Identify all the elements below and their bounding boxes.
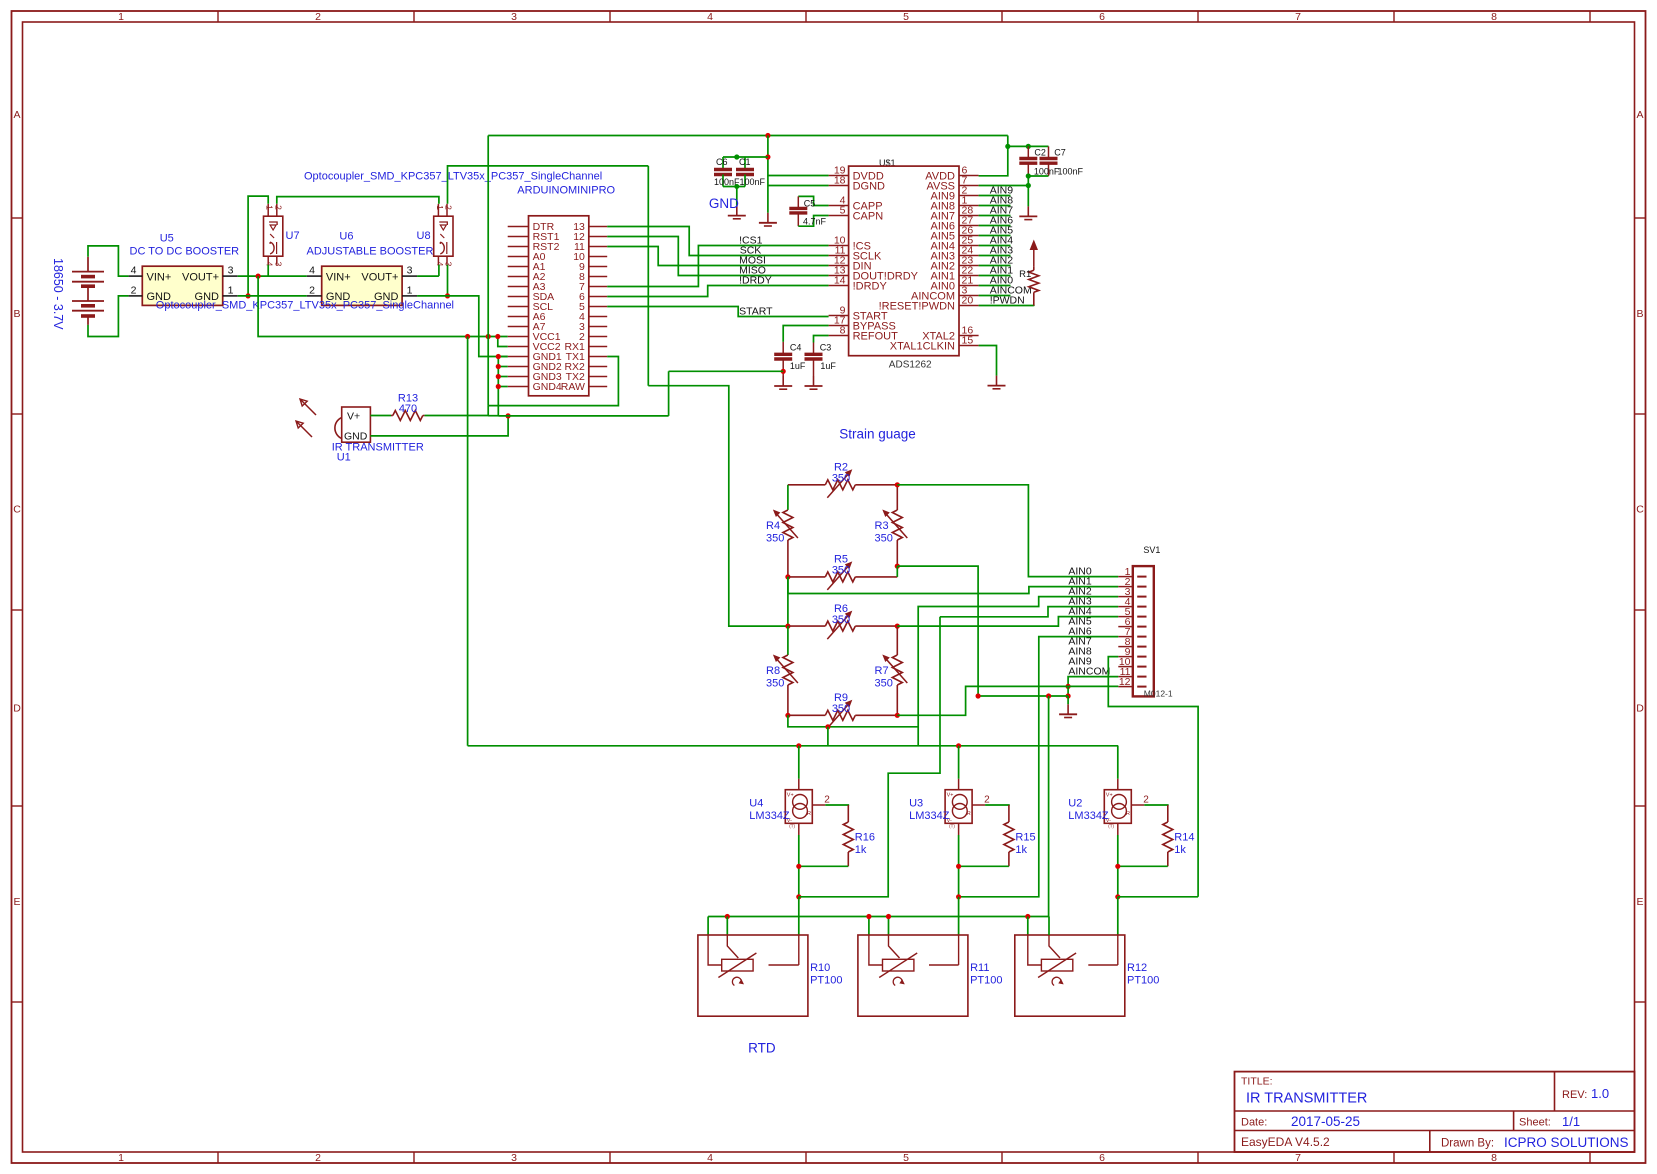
battery G1 18650 3.7V xyxy=(72,271,104,273)
ADS1262 pin 13 DOUT!DRDY xyxy=(829,275,849,277)
capacitor C7 100nF xyxy=(1048,146,1050,158)
wire bus continuity xyxy=(488,415,498,417)
R12 internal wires xyxy=(1028,935,1042,965)
svg-text:VOUT+: VOUT+ xyxy=(361,272,398,284)
svg-text:D: D xyxy=(13,703,21,715)
svg-text:EasyEDA V4.5.2: EasyEDA V4.5.2 xyxy=(1241,1135,1330,1149)
svg-text:8: 8 xyxy=(840,325,846,337)
svg-text:2: 2 xyxy=(824,794,830,805)
U5 pin 3 stub xyxy=(223,275,238,277)
svg-text:U8: U8 xyxy=(417,230,431,242)
wire cap top rail C2 C7 xyxy=(1008,145,1049,147)
svg-text:Optocoupler_SMD_KPC357_LTV35x_: Optocoupler_SMD_KPC357_LTV35x_PC357_Sing… xyxy=(156,300,454,312)
wire C2 C7 bottom rail xyxy=(1028,175,1048,177)
wire U8 pin2 riser to cross rail xyxy=(448,166,649,204)
junction RTD trunk xyxy=(1025,914,1030,919)
wire U2 bottom to AIN8 drop xyxy=(1118,896,1198,898)
SV1 pin 11 stub xyxy=(1118,676,1133,678)
wire R3 bottom to R5 right xyxy=(896,566,898,577)
wire DGND branch xyxy=(768,185,829,187)
junction AINCOM node xyxy=(1066,684,1071,689)
wire gnd bus down to RTD trunk xyxy=(1048,696,1050,917)
svg-text:U3: U3 xyxy=(909,798,923,810)
svg-text:C3: C3 xyxy=(820,342,832,352)
optocoupler U7 xyxy=(264,216,283,256)
ARDUINO pin DTR stub xyxy=(508,226,529,228)
junction VOUT net xyxy=(256,274,261,279)
wire net stub AIN4 xyxy=(979,245,1011,247)
R12 PT100 resistor element xyxy=(1041,959,1072,971)
R10 internal wires xyxy=(708,935,722,965)
ARDUINO pin TX2 stub xyxy=(589,376,607,378)
svg-text:B: B xyxy=(13,308,20,320)
wire U4 bottom to AIN3 staircase xyxy=(799,617,940,897)
U1 emission arrow 1 xyxy=(300,399,316,415)
bottom ruler ticks xyxy=(217,1152,219,1163)
resistor R9 350 strain gauge xyxy=(788,714,825,716)
svg-text:4.7nF: 4.7nF xyxy=(803,216,827,226)
wire trunk to U2 V+ xyxy=(1117,746,1119,779)
wire gnd bus to C4 node xyxy=(669,370,784,372)
svg-text:B: B xyxy=(1636,308,1643,320)
wire GND bus riser to C4 node xyxy=(668,371,670,416)
wire U1 V+ pin xyxy=(370,415,391,417)
svg-text:350: 350 xyxy=(766,678,784,690)
wire DVDD riser and branch xyxy=(768,136,829,176)
ADS1262 pin 10 !CS xyxy=(829,245,849,247)
svg-text:U1: U1 xyxy=(337,452,351,464)
U1 IR transmitter box xyxy=(342,407,371,442)
U1 LED lens arc xyxy=(335,418,342,439)
SV1 pin 6 stub xyxy=(1118,626,1133,628)
U2 LM334Z current source xyxy=(1104,790,1131,824)
wire pin12 row xyxy=(1068,685,1118,687)
ARDUINO pin 10 stub xyxy=(589,256,607,258)
U6 pin 1 stub xyxy=(402,295,417,297)
svg-text:PT100: PT100 xyxy=(970,975,1002,987)
wire U7 pin1 up-over-down to GND net xyxy=(248,196,268,296)
wire trunk left end into R10 xyxy=(707,917,709,936)
svg-text:2: 2 xyxy=(309,284,315,296)
svg-text:2: 2 xyxy=(315,11,321,23)
ARDUINO pin A6 stub xyxy=(508,316,529,318)
svg-text:5: 5 xyxy=(903,11,909,23)
ARDUINO pin A3 stub xyxy=(508,286,529,288)
junction C4 gnd node xyxy=(781,369,786,374)
wire AINCOM bus to R9 right xyxy=(897,686,1068,715)
capacitor C4 1uF xyxy=(782,342,784,354)
ARDUINO pin TX1 stub xyxy=(589,356,607,358)
R12 thermal hook symbol xyxy=(1052,977,1061,985)
junction R6 right xyxy=(895,624,900,629)
svg-text:C6: C6 xyxy=(716,157,728,167)
U5 DC TO DC BOOSTER box xyxy=(142,266,222,305)
ARDUINO pin GND1 stub xyxy=(508,356,529,358)
svg-text:R12: R12 xyxy=(1127,962,1147,974)
wire R10 sense pair from trunk xyxy=(726,917,728,936)
wire VOUT net down to VCC line xyxy=(258,276,508,336)
junction U7 GND riser xyxy=(246,293,251,298)
ADS1262 pin 3 AINCOM xyxy=(959,295,979,297)
wire U15 V- down xyxy=(958,835,960,897)
wire gnd bus horizontal xyxy=(978,695,1068,697)
svg-text:3: 3 xyxy=(444,262,454,267)
wire U6 VOUT+ to U8 pin4 xyxy=(417,275,439,277)
svg-text:Strain guage: Strain guage xyxy=(839,427,916,442)
wire net stub AIN5 xyxy=(979,235,1011,237)
wire AIN8 pin9 to U2 bottom xyxy=(1108,657,1198,897)
svg-text:350: 350 xyxy=(875,678,893,690)
title block divider drawnby xyxy=(1429,1131,1431,1153)
svg-text:1: 1 xyxy=(407,284,413,296)
svg-text:C: C xyxy=(1636,504,1644,516)
svg-text:R16: R16 xyxy=(855,832,875,844)
svg-text:18: 18 xyxy=(834,175,846,187)
wire GND1-GND4 chain xyxy=(497,357,499,417)
junction R9 right xyxy=(895,713,900,718)
SV1 pin 9 stub xyxy=(1118,656,1133,658)
svg-text:1k: 1k xyxy=(1174,844,1186,856)
junction bridge1 mid-right xyxy=(895,564,900,569)
svg-text:R11: R11 xyxy=(970,962,989,974)
R1 arrow xyxy=(1033,243,1035,266)
junction R2 right xyxy=(895,482,900,487)
ADS1262 pin 7 AVSS xyxy=(959,185,979,187)
U6 pin 3 stub xyxy=(402,275,417,277)
ARDUINO pin RAW stub xyxy=(589,386,607,388)
svg-text:R8: R8 xyxy=(766,665,780,677)
svg-text:U4: U4 xyxy=(749,798,763,810)
wire CAPP to C5 xyxy=(798,196,828,205)
svg-text:1k: 1k xyxy=(855,844,867,856)
U1 emission arrow 2 xyxy=(296,421,312,437)
svg-text:RAW: RAW xyxy=(561,381,585,393)
ARDUINO pin RST2 stub xyxy=(508,246,529,248)
wire net stub AIN6 xyxy=(979,225,1011,227)
ARDUINO pin RX1 stub xyxy=(589,346,607,348)
wire BYPASS to C4 xyxy=(783,326,828,342)
wire net stub AIN9 xyxy=(979,195,1011,197)
junction RTD trunk xyxy=(886,914,891,919)
svg-text:8: 8 xyxy=(1491,1152,1497,1164)
svg-text:4: 4 xyxy=(309,265,315,277)
svg-text:DC TO DC BOOSTER: DC TO DC BOOSTER xyxy=(130,246,240,258)
svg-text:6: 6 xyxy=(1099,1152,1105,1164)
svg-text:PT100: PT100 xyxy=(1127,975,1159,987)
wire VCC2 tap xyxy=(498,337,508,347)
ADS1262 pin 24 AIN3 xyxy=(959,255,979,257)
junction AVDD riser xyxy=(1005,144,1010,149)
ground under C6 C1 xyxy=(736,206,738,216)
wire net stub AIN8 xyxy=(979,205,1011,207)
wire R14 bottom loop xyxy=(1118,865,1168,867)
svg-text:3: 3 xyxy=(511,1152,517,1164)
ground under C4 xyxy=(782,376,784,386)
svg-text:Optocoupler_SMD_KPC357_LTV35x_: Optocoupler_SMD_KPC357_LTV35x_PC357_Sing… xyxy=(304,171,602,183)
junction cap rail xyxy=(734,154,739,159)
wire U2 sense into RTD xyxy=(1117,897,1119,935)
junction trunk U3 xyxy=(956,743,961,748)
ground under C3 xyxy=(813,376,815,386)
svg-text:LM334Z: LM334Z xyxy=(1068,810,1109,822)
wire !PWDN to R1 xyxy=(979,305,1034,308)
title block outer xyxy=(1235,1072,1635,1152)
resistor R3 350 strain gauge xyxy=(896,485,898,510)
ADS1262 pin 17 BYPASS xyxy=(829,325,849,327)
title block line row1 xyxy=(1235,1110,1635,1112)
wire subrail tap down to VCC trunk xyxy=(827,727,829,746)
U9 ARDUINOMINIPRO box xyxy=(529,216,589,396)
svg-text:ICPRO SOLUTIONS: ICPRO SOLUTIONS xyxy=(1504,1135,1629,1150)
wire R2 right to AIN0 xyxy=(897,485,1118,577)
wire R11 sense pair from trunk xyxy=(868,917,870,936)
wire R5 left node to AIN1 xyxy=(787,577,789,594)
ADS1262 pin 20 !RESET!PWDN xyxy=(959,305,979,307)
wire GND bus horizontal xyxy=(498,415,668,417)
ADS1262 pin 15 XTAL1CLKIN xyxy=(959,345,979,347)
junction bottom node b xyxy=(956,894,961,899)
ARDUINO pin A1 stub xyxy=(508,266,529,268)
resistor R14 1k xyxy=(1167,805,1169,822)
SV1 pin 5 stub xyxy=(1118,616,1133,618)
wire U7 pin4 drop to VOUT net xyxy=(267,265,269,276)
wire AIN2 riser xyxy=(918,597,1118,746)
wire GND3 tap xyxy=(498,376,507,378)
svg-text:U6: U6 xyxy=(339,231,353,243)
ADS1262 pin 22 AIN1 xyxy=(959,275,979,277)
junction bottom node b xyxy=(796,894,801,899)
wire DVDD top rail xyxy=(488,135,1008,137)
svg-text:5: 5 xyxy=(903,1152,909,1164)
svg-text:REV:: REV: xyxy=(1562,1089,1587,1101)
svg-text:18650 - 3.7V: 18650 - 3.7V xyxy=(51,258,65,330)
wire U8 pin4 drop to U6 VOUT wire xyxy=(438,265,440,276)
ARDUINO pin RST1 stub xyxy=(508,236,529,238)
svg-text:100nF: 100nF xyxy=(1058,167,1084,177)
svg-text:Sheet:: Sheet: xyxy=(1519,1117,1551,1129)
junction GND bus IR tap xyxy=(506,413,511,418)
resistor R7 350 strain gauge xyxy=(896,626,898,655)
R11 PT100 resistor element xyxy=(883,959,914,971)
svg-text:ARDUINOMINIPRO: ARDUINOMINIPRO xyxy=(517,185,615,197)
ARDUINO pin VCC1 stub xyxy=(508,336,529,338)
ARDUINO pin GND3 stub xyxy=(508,376,529,378)
title block line row2 xyxy=(1235,1130,1635,1132)
wire trunk to U4 V+ xyxy=(798,746,800,779)
U5 pin 1 stub xyxy=(223,295,238,297)
wire U6 GND right then down to ARDUINO GND1 xyxy=(417,296,508,357)
wire battery minus to U5 GND xyxy=(88,296,129,337)
wire GND1 tap xyxy=(498,356,507,358)
svg-text:V+: V+ xyxy=(1106,792,1113,798)
junction riser cap rail xyxy=(765,154,770,159)
R12 PT100 RTD box xyxy=(1015,935,1125,1016)
ADS1262 pin 1 AIN8 xyxy=(959,205,979,207)
wire pin5 to START rail xyxy=(607,307,828,317)
svg-text:D: D xyxy=(1636,703,1644,715)
wire TX1 loop xyxy=(488,357,618,406)
resistor R13 470 xyxy=(391,415,393,417)
R10 thermal hook symbol xyxy=(732,977,741,985)
junction RTD trunk xyxy=(866,914,871,919)
svg-text:4: 4 xyxy=(707,1152,713,1164)
svg-text:350: 350 xyxy=(875,533,893,545)
ADS1262 pin 28 AIN7 xyxy=(959,215,979,217)
U6 ADJUSTABLE BOOSTER box xyxy=(322,266,402,305)
svg-text:VIN+: VIN+ xyxy=(147,272,172,284)
resistor R2 350 strain gauge xyxy=(788,484,825,486)
svg-text:1uF: 1uF xyxy=(790,361,806,371)
wire GND4 tap xyxy=(498,386,507,388)
capacitor C2 100nF xyxy=(1027,146,1029,158)
wire U3 sense into RTD xyxy=(958,897,960,935)
wire AIN3 line to SV1 xyxy=(940,607,1118,617)
svg-text:12: 12 xyxy=(1119,676,1131,688)
junction VCC1 line dots xyxy=(465,334,470,339)
svg-text:350: 350 xyxy=(832,703,850,715)
wire bridge1 left column xyxy=(787,485,789,510)
svg-text:R: R xyxy=(1126,811,1130,817)
svg-text:R15: R15 xyxy=(1015,832,1035,844)
svg-text:ADJUSTABLE BOOSTER: ADJUSTABLE BOOSTER xyxy=(307,246,434,258)
wire AINCOM pin11 step xyxy=(1068,677,1118,687)
svg-text:R14: R14 xyxy=(1174,832,1194,844)
svg-text:100nF: 100nF xyxy=(1034,167,1060,177)
U3 LM334Z current source xyxy=(945,790,972,824)
top ruler ticks xyxy=(217,11,219,22)
ARDUINO pin SCL stub xyxy=(508,306,529,308)
resistor R5 350 strain gauge xyxy=(788,576,825,578)
svg-text:VIN+: VIN+ xyxy=(326,272,351,284)
svg-text:2: 2 xyxy=(1143,794,1149,805)
junction bottom node a xyxy=(956,864,961,869)
svg-text:Date:: Date: xyxy=(1241,1117,1267,1129)
capacitor C1 100nF xyxy=(744,157,746,170)
SV1 pin 8 stub xyxy=(1118,646,1133,648)
U4 LM334Z current source xyxy=(785,790,812,824)
svg-text:3: 3 xyxy=(228,265,234,277)
ARDUINO pin 11 stub xyxy=(589,246,607,248)
ARDUINO pin 13 stub xyxy=(589,226,607,228)
svg-text:IR TRANSMITTER: IR TRANSMITTER xyxy=(1246,1091,1367,1107)
ADS1262 pin 16 XTAL2 xyxy=(959,335,979,337)
resistor R16 1k xyxy=(847,805,849,822)
ARDUINO pin 3 stub xyxy=(589,326,607,328)
junction R9 left xyxy=(785,713,790,718)
svg-text:2: 2 xyxy=(984,794,990,805)
wire pin7 to CS1 rail xyxy=(607,246,828,287)
wire cross rail down to C4 gnd line xyxy=(647,166,649,386)
svg-text:470: 470 xyxy=(399,403,417,415)
capacitor C5 4.7nF xyxy=(797,196,799,208)
svg-text:GND: GND xyxy=(709,196,739,211)
svg-text:4: 4 xyxy=(265,262,275,267)
junction bottom node a xyxy=(796,864,801,869)
wire GND2 tap xyxy=(498,366,507,368)
svg-text:U2: U2 xyxy=(1068,798,1082,810)
R11 thermal hook symbol xyxy=(893,977,902,985)
svg-text:7: 7 xyxy=(1295,1152,1301,1164)
svg-text:8: 8 xyxy=(1491,11,1497,23)
ARDUINO pin 2 stub xyxy=(589,336,607,338)
svg-text:!DRDY: !DRDY xyxy=(853,280,888,292)
svg-text:GND4: GND4 xyxy=(533,381,562,393)
wire U16 V- down xyxy=(798,835,800,897)
svg-text:A: A xyxy=(13,109,20,121)
svg-text:2: 2 xyxy=(273,205,283,210)
ARDUINO pin GND2 stub xyxy=(508,366,529,368)
wire R9 subrail xyxy=(788,715,918,727)
svg-text:14: 14 xyxy=(834,275,846,287)
junction gnd bus left xyxy=(976,693,981,698)
svg-text:C: C xyxy=(13,504,21,516)
wire VCC trunk lower xyxy=(468,745,1119,747)
ARDUINO pin 8 stub xyxy=(589,276,607,278)
svg-text:E: E xyxy=(13,896,20,908)
svg-text:!RESET!PWDN: !RESET!PWDN xyxy=(879,300,955,312)
wire trunk right end into R12 xyxy=(1048,917,1050,936)
wire net stub AIN3 xyxy=(979,255,1011,257)
svg-text:R1: R1 xyxy=(1019,269,1031,280)
junction trunk U4 xyxy=(796,743,801,748)
wire R13 to TX loop riser xyxy=(425,406,489,416)
resistor R1 xyxy=(1033,266,1035,270)
junction bridge1 bottom-left xyxy=(785,574,790,579)
R10 PT100 resistor element xyxy=(722,959,753,971)
svg-text:350: 350 xyxy=(766,533,784,545)
wire net stub AIN7 xyxy=(979,215,1011,217)
svg-text:(T): (T) xyxy=(949,824,955,829)
wire U5 VOUT+ to U6 VIN+ xyxy=(238,275,307,277)
wire cap bottom rail xyxy=(723,186,745,188)
svg-text:3: 3 xyxy=(511,11,517,23)
ADS1262 pin 26 AIN5 xyxy=(959,235,979,237)
junction RTD trunk xyxy=(725,914,730,919)
wire trunk to U3 V+ xyxy=(958,746,960,779)
ARDUINO pin A0 stub xyxy=(508,256,529,258)
wire R16 bottom loop xyxy=(799,865,849,867)
U6 pin 4 stub xyxy=(307,275,322,277)
svg-text:350: 350 xyxy=(832,473,850,485)
svg-text:XTAL1CLKIN: XTAL1CLKIN xyxy=(890,340,955,352)
title block divider sheet xyxy=(1513,1111,1515,1131)
wire R16 top loop xyxy=(825,805,848,806)
wire net stub AIN2 xyxy=(979,265,1011,267)
ADS1262 pin 12 DIN xyxy=(829,265,849,267)
ADS1262 pin 18 DGND xyxy=(829,185,849,187)
svg-text:V+: V+ xyxy=(347,411,360,423)
svg-text:350: 350 xyxy=(832,565,850,577)
junction gnd bus node xyxy=(1066,693,1071,698)
wire U8 pin3 drop to GND net xyxy=(447,265,449,296)
capacitor C3 1uF xyxy=(813,343,815,355)
ARDUINO pin 12 stub xyxy=(589,236,607,238)
svg-text:4: 4 xyxy=(435,262,445,267)
R10 PT100 RTD box xyxy=(698,935,808,1016)
SV1 pin 12 stub xyxy=(1118,686,1133,688)
wire net stub AIN0 xyxy=(979,285,1011,287)
ground under DGND riser xyxy=(767,213,769,223)
wire RTD trunk xyxy=(708,916,1049,918)
wire net stub AINCOM xyxy=(979,295,1011,297)
svg-text:1: 1 xyxy=(435,205,445,210)
svg-text:20: 20 xyxy=(962,295,974,307)
svg-text:V+: V+ xyxy=(947,792,954,798)
wire CAPN to C5 bottom xyxy=(798,216,828,227)
ARDUINO pin 7 stub xyxy=(589,286,607,288)
junction U8 GND riser xyxy=(445,293,450,298)
wire AVSS to cap gnd node xyxy=(979,185,1029,187)
